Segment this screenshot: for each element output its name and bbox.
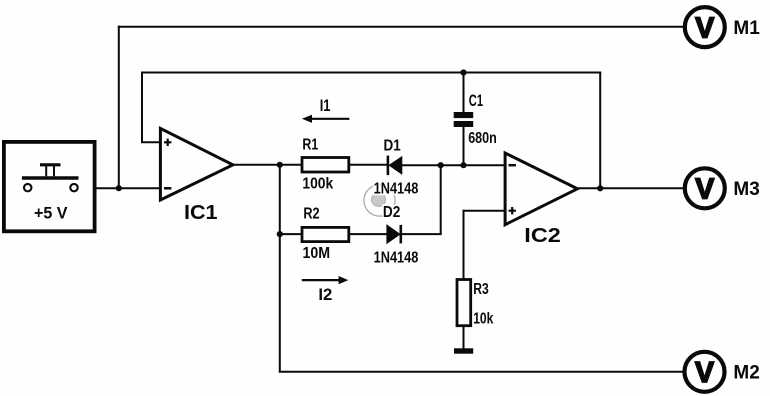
svg-text:R2: R2 xyxy=(303,205,319,222)
junction: IC2 output feedback node xyxy=(597,185,603,191)
svg-text:V: V xyxy=(695,12,714,44)
wire: R3 to ground xyxy=(463,326,465,349)
watermark logo xyxy=(364,185,395,216)
svg-text:680n: 680n xyxy=(468,130,497,147)
svg-text:I1: I1 xyxy=(320,97,331,115)
wire: R1 to D1 xyxy=(349,164,388,166)
op-amp IC1 xyxy=(160,128,233,200)
svg-text:10M: 10M xyxy=(303,245,331,262)
svg-text:R1: R1 xyxy=(302,137,318,154)
svg-text:V: V xyxy=(695,357,714,389)
wire: IC2 noninverting input stub xyxy=(464,210,506,212)
junction: button / M1 / IC1 inverting node xyxy=(116,185,122,191)
junction: D2 branch joins R1/D1 row xyxy=(438,162,444,168)
ground xyxy=(454,348,473,353)
resistor R3 xyxy=(457,280,471,326)
svg-text:M1: M1 xyxy=(733,18,760,39)
meter M3 xyxy=(685,168,725,208)
wire: branch to R2 xyxy=(280,233,303,235)
meter M1 xyxy=(685,7,725,47)
svg-text:I2: I2 xyxy=(318,286,332,304)
diode D2 xyxy=(387,225,401,244)
wire: R2 to D2 xyxy=(349,233,387,235)
junction: R2 branch node xyxy=(277,231,283,237)
wire: vertical drop to IC1 noninverting input xyxy=(141,72,143,143)
junction: C1 top on feedback rail xyxy=(460,69,466,75)
junction: C1 bottom joins row xyxy=(460,162,466,168)
svg-text:+5 V: +5 V xyxy=(34,204,68,223)
resistor R2 xyxy=(302,227,349,241)
svg-text:1N4148: 1N4148 xyxy=(374,180,419,197)
wire: C1 top stem xyxy=(463,73,465,113)
wire: bottom rail to M2 xyxy=(279,371,684,373)
wire: D1 to summing node into IC2 - input xyxy=(401,164,506,166)
wire: left vertical from top wire down to button node xyxy=(118,26,120,188)
wire: D2 cathode to vertical xyxy=(401,233,442,235)
wire: IC1 noninverting input stub xyxy=(141,141,161,143)
wire: D2 output up to row xyxy=(440,165,442,234)
svg-text:IC1: IC1 xyxy=(184,202,218,224)
wire: IC2 output to M3 xyxy=(576,187,683,189)
svg-text:IC2: IC2 xyxy=(524,225,561,247)
svg-text:D2: D2 xyxy=(383,204,400,221)
wire: top node to M1 xyxy=(118,26,684,28)
current arrow I2 xyxy=(302,276,349,284)
svg-text:10k: 10k xyxy=(473,311,493,328)
svg-text:V: V xyxy=(695,174,714,206)
junction: IC1 output / R1 / R2 branch node xyxy=(277,162,283,168)
op-amp IC2 xyxy=(505,153,577,225)
svg-text:R3: R3 xyxy=(473,281,489,298)
wire: vertical from IC2 + input down to R3 xyxy=(463,210,465,280)
wire: pushbutton output to IC1 inverting input xyxy=(96,187,161,189)
wire: branch vertical from R1 row through R2 row to bottom rail xyxy=(279,165,281,372)
svg-text:M2: M2 xyxy=(733,363,759,384)
wire: IC1 output to R1 xyxy=(232,164,303,166)
svg-text:D1: D1 xyxy=(384,138,401,155)
current arrow I1 xyxy=(302,115,350,123)
svg-text:1N4148: 1N4148 xyxy=(374,249,419,266)
pushbutton box (+5 V source) xyxy=(4,142,95,231)
svg-text:C1: C1 xyxy=(469,91,483,110)
meter M2 xyxy=(685,352,725,392)
capacitor C1 xyxy=(454,112,474,127)
svg-text:M3: M3 xyxy=(733,179,759,200)
wire: feedback vertical from IC2 output to top rail xyxy=(599,72,601,189)
wire: feedback top rail (IC2 output to IC1 + input) xyxy=(141,72,601,74)
resistor R1 xyxy=(302,158,349,173)
wire: C1 bottom stem xyxy=(463,127,465,165)
svg-text:100k: 100k xyxy=(302,176,333,193)
diode D1 xyxy=(388,156,402,176)
